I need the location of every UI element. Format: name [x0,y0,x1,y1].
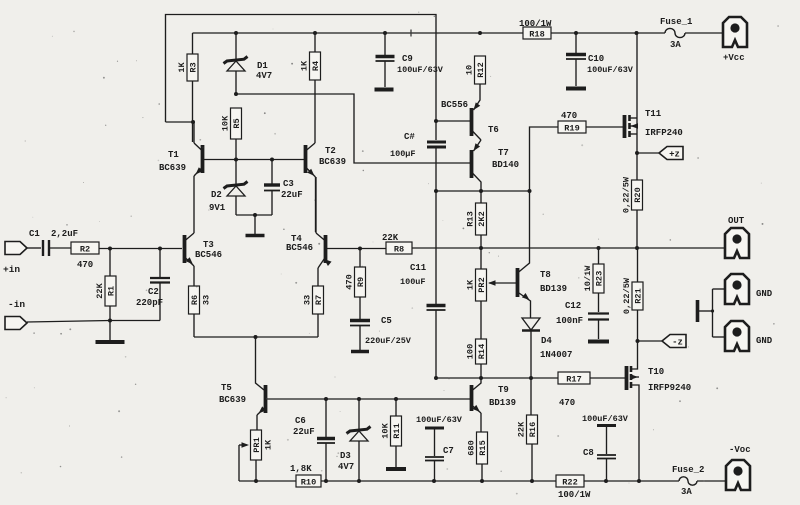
resistor R14 100 [476,339,487,364]
svg-text:100uF/63V: 100uF/63V [582,414,629,424]
svg-text:BD139: BD139 [489,398,516,408]
svg-text:T6: T6 [488,125,499,135]
svg-text:C9: C9 [402,54,413,64]
ground symbol at GND terminals [696,300,700,322]
flag -z [662,335,686,348]
capacitor C7 100uF/63V [425,427,444,430]
svg-text:Fuse_1: Fuse_1 [660,17,693,27]
node C6 top [324,397,328,401]
svg-text:D4: D4 [541,336,552,346]
resistor R6 33 [189,286,200,314]
capacitor C4 100uF (C#) [435,121,437,140]
wire to -z flag [638,340,663,342]
svg-text:1,8K: 1,8K [290,464,312,474]
node R16 bottom [530,479,534,483]
svg-text:470: 470 [77,260,93,270]
svg-text:T10: T10 [648,367,664,377]
wire feedback/output rail R8 to OUT terminal [412,247,725,249]
resistor R20 0,22/5W [632,180,643,210]
node junction R3-bottom / T1 collector [191,120,195,124]
input terminal +in [5,242,27,255]
emitter rail T3/T4 to T5 collector [194,336,318,338]
zener diode D3 4V7 [358,399,360,431]
svg-text:R21: R21 [634,288,644,303]
wire top bootstrap loop from T1 collector to C4/T6-base column [166,15,437,123]
svg-text:BC556: BC556 [441,100,468,110]
svg-text:R18: R18 [529,29,544,39]
node C8 bottom [604,479,608,483]
svg-text:22K: 22K [517,421,527,437]
svg-text:GND: GND [756,336,773,346]
svg-text:R10: R10 [301,477,316,487]
bottom negative rail y=481 [239,480,556,482]
svg-text:BC639: BC639 [319,157,346,167]
node R4 top on +V rail [313,31,317,35]
svg-text:1K: 1K [177,62,187,73]
node D1 bottom / R5 top junction [234,92,238,96]
bias rail y=378 to T10 gate with R17 [436,377,558,379]
wire D2/C3 bottoms to ground [236,214,272,216]
svg-text:R8: R8 [394,244,404,254]
node R12 top on +V rail [478,31,482,35]
transistor T1 BC639 [201,145,205,173]
svg-text:R1: R1 [107,286,117,296]
svg-text:T1: T1 [168,150,179,160]
zener diode D1 4V7 [235,33,237,61]
svg-text:R23: R23 [595,271,605,286]
fuse Fuse_1 3A [665,28,685,37]
transistor T5 BC639 [256,337,265,390]
svg-text:100uF/63V: 100uF/63V [416,415,463,425]
resistor R16 22K [530,378,532,415]
svg-text:T11: T11 [645,109,662,119]
svg-text:-Voc: -Voc [729,445,751,455]
svg-text:3A: 3A [681,487,692,497]
svg-text:Fuse_2: Fuse_2 [672,465,704,475]
input terminal -in [5,317,27,330]
node C4/T6 base junction [434,119,438,123]
svg-text:22K: 22K [95,282,105,298]
svg-text:470: 470 [559,398,575,408]
svg-text:BD140: BD140 [492,160,519,170]
node R20/R21 tap on output rail [635,246,639,250]
svg-text:R3: R3 [189,62,199,72]
svg-text:IRFP240: IRFP240 [645,128,683,138]
node C7 bottom [432,479,436,483]
node T11 source / +z tap [635,151,639,155]
svg-text:C10: C10 [588,54,604,64]
resistor R12 10 [475,56,486,84]
terminal -Voc [726,460,750,490]
resistor R7 33 [317,314,319,337]
svg-text:C11: C11 [410,263,427,273]
transistor T2 BC639 [304,145,308,173]
capacitor C6 22uF [325,399,327,437]
svg-text:R7: R7 [314,295,324,305]
node C6 bottom [324,479,328,483]
resistor R15 680 [477,432,488,464]
svg-text:OUT: OUT [728,216,745,226]
resistor R3 1K [192,33,194,55]
svg-text:BD139: BD139 [540,284,567,294]
svg-text:33: 33 [202,295,212,305]
ground under R11 [386,467,406,471]
svg-text:22uF: 22uF [293,427,315,437]
node C10 top on +V rail [574,31,578,35]
svg-text:C3: C3 [283,179,294,189]
wire R2 to T3 base [99,248,182,250]
transistor T3 BC546 [183,235,187,263]
capacitor C1 2,2uF [42,240,44,256]
svg-text:R5: R5 [232,118,242,128]
terminal OUT [725,228,749,258]
svg-text:D2: D2 [211,190,222,200]
svg-text:100uF/63V: 100uF/63V [587,65,634,75]
svg-text:10K: 10K [381,422,391,438]
svg-text:D1: D1 [257,61,268,71]
wire +V rail y=33 right segment R18 to fuse and +Vcc [551,32,665,34]
ground under C12 [588,340,609,344]
svg-text:22K: 22K [382,233,399,243]
wire T4 base to R8 [327,248,386,250]
svg-text:C8: C8 [583,448,594,458]
svg-text:D3: D3 [340,451,351,461]
svg-text:-in: -in [8,299,25,310]
capacitor C10 100uF/63V [575,33,577,53]
svg-text:-z: -z [672,337,683,347]
node C2 top [158,247,162,251]
svg-text:T2: T2 [325,146,336,156]
svg-text:3A: 3A [670,40,681,50]
transistor T6 BC556 [470,108,474,136]
svg-text:T8: T8 [540,270,551,280]
transistor T7 BD140 [470,150,474,178]
fuse Fuse_2 3A [679,477,697,485]
resistor R22 100/1W [556,475,584,487]
svg-text:0,22/5W: 0,22/5W [622,277,632,314]
resistor R18 100/1W [523,27,551,39]
resistor R13 2K2 [480,191,482,203]
node T11 drain on +V rail [635,31,639,35]
node C11 bottom on bias rail [434,376,438,380]
ground under C10 [566,87,586,91]
node input ground tap [108,319,112,323]
node T10 drain [637,479,641,483]
svg-text:2K2: 2K2 [477,211,487,226]
svg-text:100/1W: 100/1W [519,19,552,29]
terminal GND lower [725,321,749,351]
node PR1 bottom [254,479,258,483]
svg-text:R11: R11 [392,423,402,438]
svg-text:R9: R9 [356,277,366,287]
svg-text:0,22/5W: 0,22/5W [622,176,632,213]
node D3 bottom [357,479,361,483]
ground under D2/C3 [246,234,265,238]
resistor R21 0,22/5W [637,248,639,282]
trimmer PR2 1K [476,269,487,301]
resistor R23 10/1W [598,248,600,264]
svg-text:100: 100 [466,344,476,359]
node C4/C11 column on VAS rail [434,189,438,193]
resistor R8 22K feedback [386,242,412,254]
scan artifact tick near C9 junction [410,30,412,37]
node R19/T8 collector on VAS rail [528,189,532,193]
svg-text:R19: R19 [564,123,579,133]
svg-text:10: 10 [465,65,475,75]
wire T6 base [436,120,470,122]
resistor R5 10K [231,108,242,139]
capacitor C5 220uF/25V [350,319,370,322]
ground under C9 [375,88,394,92]
ground under C5 [351,350,369,354]
wire +V rail y=33 left segment from R3 top corner to R18 [193,32,524,34]
capacitor C11 100uF [435,191,437,304]
svg-text:C2: C2 [148,287,159,297]
svg-text:R12: R12 [476,62,486,77]
node C9 top on +V rail [383,31,387,35]
svg-text:100uF/63V: 100uF/63V [397,65,444,75]
svg-text:IRFP9240: IRFP9240 [648,383,691,393]
node R11 top [394,397,398,401]
svg-text:R4: R4 [311,61,321,71]
svg-text:100uF: 100uF [400,277,426,287]
svg-text:C#: C# [404,132,415,142]
node R14 bottom / T9 collector [479,376,483,380]
svg-text:C12: C12 [565,301,581,311]
capacitor C12 100nF [588,312,609,314]
resistor R2 470 [71,242,99,254]
svg-text:R22: R22 [562,477,577,487]
node C3 top on base wire [270,158,274,162]
svg-text:BC639: BC639 [159,163,186,173]
svg-text:680: 680 [467,440,477,455]
svg-text:BC546: BC546 [286,243,313,253]
svg-text:1K: 1K [264,439,274,450]
svg-text:R20: R20 [633,187,643,202]
trimmer PR1 1K [251,430,262,460]
node gnd bus corner [711,309,714,312]
svg-text:T3: T3 [203,240,214,250]
svg-text:2,2uF: 2,2uF [51,229,78,239]
svg-text:BC639: BC639 [219,395,246,405]
node ground tap [253,213,257,217]
svg-text:33: 33 [303,295,313,305]
svg-text:PR1: PR1 [252,437,262,452]
resistor R11 10K [395,399,397,416]
svg-text:R13: R13 [466,211,476,226]
zener diode D2 9V1 [235,159,237,186]
svg-text:10/1W: 10/1W [583,265,593,292]
MOSFET T11 IRFP240 [623,115,627,138]
terminal +Vcc [723,17,747,47]
node D1 top on +V rail [234,31,238,35]
svg-text:T5: T5 [221,383,232,393]
transistor T8 BD139 [516,268,520,297]
resistor R10 1,8K [296,475,321,487]
wire to +z flag [637,152,659,154]
wire R12 to T6 emitter [474,84,481,110]
node R15 bottom [480,479,484,483]
svg-text:220pF: 220pF [136,298,163,308]
capacitor C8 100uF/63V [597,424,616,427]
svg-text:BC546: BC546 [195,250,222,260]
input ground [96,340,125,344]
capacitor C9 100uF/63V [384,33,386,55]
resistor R9 470 [359,249,361,268]
svg-text:+z: +z [669,149,680,159]
diode D4 1N4007 [522,318,540,330]
svg-text:22uF: 22uF [281,190,303,200]
svg-text:1K: 1K [300,60,310,71]
wire from D1 bottom right then down to T7 base [236,94,470,163]
driver rail y=399 T5 base to T9 base [267,398,470,400]
svg-text:T9: T9 [498,385,509,395]
wire T1 base to T2 base [203,159,304,161]
wiper wire PR1 [239,444,247,446]
node R1 top [108,247,112,251]
svg-text:R6: R6 [190,295,200,305]
capacitor C2 220pF [159,249,161,278]
svg-text:R17: R17 [566,374,581,384]
svg-text:C5: C5 [381,316,392,326]
svg-text:220uF/25V: 220uF/25V [365,336,412,346]
svg-text:9V1: 9V1 [209,203,226,213]
svg-text:R15: R15 [478,440,488,455]
transistor T9 BD139 [470,385,474,411]
node bias chain tap on output rail [479,246,483,250]
svg-text:100/1W: 100/1W [558,490,591,500]
svg-text:100µF: 100µF [390,149,416,159]
MOSFET T10 IRFP9240 [631,341,638,369]
wire bootstrap corner to R3/T1 junction [166,121,194,123]
svg-text:100nF: 100nF [556,316,583,326]
node R9 top [358,247,362,251]
svg-text:R16: R16 [528,422,538,437]
node R5 bottom / D2 top on base wire [234,158,238,162]
svg-text:470: 470 [345,274,355,289]
node T5 collector tap [254,335,258,339]
node R23 top on output rail [597,246,601,250]
VAS rail y=191 [436,190,530,192]
resistor R1 22K [109,249,111,277]
resistor R19 470 to T11 gate [530,127,559,191]
transistor T4 BC546 (mirrored) [324,235,328,263]
svg-text:1N4007: 1N4007 [540,350,572,360]
svg-text:PR2: PR2 [477,277,487,292]
wiper wire PR2 to T8 base [489,282,516,284]
svg-text:10K: 10K [221,115,231,131]
svg-text:C6: C6 [295,416,306,426]
node T7 collector / R13 top [479,189,483,193]
svg-text:1K: 1K [466,279,476,290]
node D3 top [357,397,361,401]
resistor R17 470 [558,372,590,384]
svg-text:+Vcc: +Vcc [723,53,745,63]
capacitor C3 22uF [271,159,273,184]
svg-text:470: 470 [561,111,577,121]
svg-text:C1: C1 [29,229,40,239]
resistor R4 1K [314,33,316,52]
wire -in to R1/C2 bottoms [27,321,160,323]
svg-text:R14: R14 [477,344,487,359]
node T10 source / -z tap [636,339,640,343]
svg-text:+in: +in [3,264,20,275]
svg-text:R2: R2 [80,244,90,254]
svg-text:C7: C7 [443,446,454,456]
node D4 bottom / R16 top [529,376,533,380]
terminal GND upper [725,274,749,304]
flag +z [659,147,683,160]
wire ground to GND terminals [698,310,713,312]
svg-text:4V7: 4V7 [338,462,354,472]
svg-text:GND: GND [756,289,773,299]
svg-text:T7: T7 [498,148,509,158]
svg-text:4V7: 4V7 [256,71,272,81]
scan speckles [259,77,261,79]
